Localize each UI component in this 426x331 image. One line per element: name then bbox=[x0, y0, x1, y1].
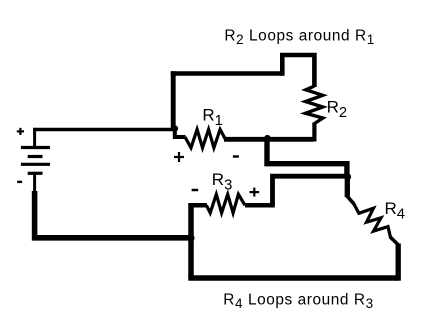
svg-text:R2 Loops around R1: R2 Loops around R1 bbox=[224, 27, 374, 47]
svg-text:R4 Loops around R3: R4 Loops around R3 bbox=[223, 292, 373, 312]
